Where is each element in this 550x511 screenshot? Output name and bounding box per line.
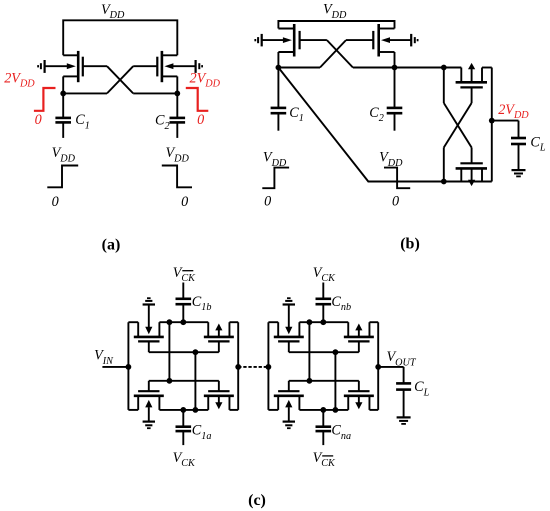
svg-text:0: 0 <box>181 194 188 210</box>
svg-text:(b): (b) <box>400 235 420 252</box>
svg-text:0: 0 <box>392 194 399 210</box>
svg-text:(a): (a) <box>102 236 121 253</box>
svg-text:0: 0 <box>35 112 42 128</box>
svg-text:0: 0 <box>264 194 271 210</box>
svg-text:0: 0 <box>197 112 204 128</box>
svg-text:(c): (c) <box>248 492 266 509</box>
svg-text:0: 0 <box>52 194 59 210</box>
